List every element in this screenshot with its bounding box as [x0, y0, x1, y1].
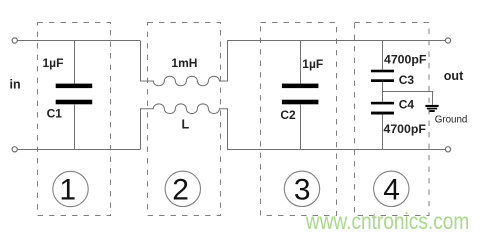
- svg-text:2: 2: [172, 174, 189, 207]
- svg-text:C3: C3: [399, 73, 415, 87]
- svg-text:4700pF: 4700pF: [384, 52, 427, 66]
- dashed section box 2: [148, 23, 221, 216]
- svg-text:L: L: [182, 118, 190, 132]
- svg-text:3: 3: [294, 174, 311, 207]
- svg-text:1mH: 1mH: [171, 56, 197, 70]
- svg-text:in: in: [10, 77, 21, 91]
- svg-text:C2: C2: [280, 108, 296, 122]
- wire bottom rail left: [17, 149, 140, 151]
- ground: [425, 105, 438, 112]
- svg-text:1: 1: [59, 174, 76, 207]
- input terminal bottom: [12, 147, 17, 152]
- section number 2: [165, 171, 200, 207]
- svg-text:1µF: 1µF: [43, 56, 64, 70]
- inductor L bottom winding: [141, 104, 228, 150]
- wire C3-C4 junction: [382, 82, 384, 102]
- wire top rail right: [227, 40, 445, 42]
- svg-text:C1: C1: [47, 106, 63, 120]
- svg-text:1µF: 1µF: [302, 57, 323, 71]
- inductor L top winding: [141, 41, 228, 86]
- output terminal top: [445, 38, 450, 43]
- output terminal bottom: [445, 147, 450, 152]
- svg-text:C4: C4: [399, 98, 415, 112]
- input terminal top: [12, 38, 17, 43]
- dashed section box 1: [38, 23, 111, 216]
- dashed section box 4: [355, 23, 430, 216]
- wire bottom rail right: [227, 149, 445, 151]
- svg-text:4700pF: 4700pF: [384, 122, 427, 136]
- wire top rail left: [17, 40, 140, 42]
- section number 4: [374, 171, 409, 207]
- svg-text:Ground: Ground: [435, 114, 468, 125]
- section number 1: [53, 171, 88, 206]
- dashed section box 3: [261, 23, 337, 216]
- capacitor C3: [371, 41, 394, 83]
- capacitor C2: [282, 41, 319, 151]
- svg-text:www.cntronics.com: www.cntronics.com: [305, 208, 469, 234]
- capacitor C4: [371, 102, 394, 150]
- capacitor C1: [56, 41, 92, 151]
- section number 3: [284, 171, 319, 207]
- wire to ground: [383, 92, 433, 105]
- svg-text:4: 4: [383, 174, 400, 207]
- svg-text:out: out: [444, 69, 464, 83]
